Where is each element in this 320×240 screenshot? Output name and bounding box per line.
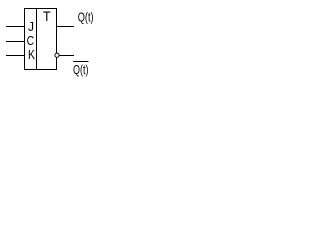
flip-flop internal divider [36, 9, 38, 70]
wire Q output [57, 26, 75, 28]
wire K input [6, 55, 25, 57]
wire J input [6, 26, 25, 28]
svg-text:K: K [28, 47, 35, 62]
wire C clock input [6, 41, 25, 43]
svg-text:Q(t): Q(t) [73, 62, 89, 77]
flip-flop U1 box [25, 9, 57, 70]
svg-text:Q(t): Q(t) [78, 9, 94, 24]
svg-text:T: T [43, 8, 51, 24]
svg-text:C: C [27, 33, 34, 48]
wire Q-bar output [59, 55, 74, 57]
svg-text:J: J [28, 19, 34, 34]
inversion bubble [55, 53, 59, 57]
overbar of Q-bar label [73, 61, 89, 63]
